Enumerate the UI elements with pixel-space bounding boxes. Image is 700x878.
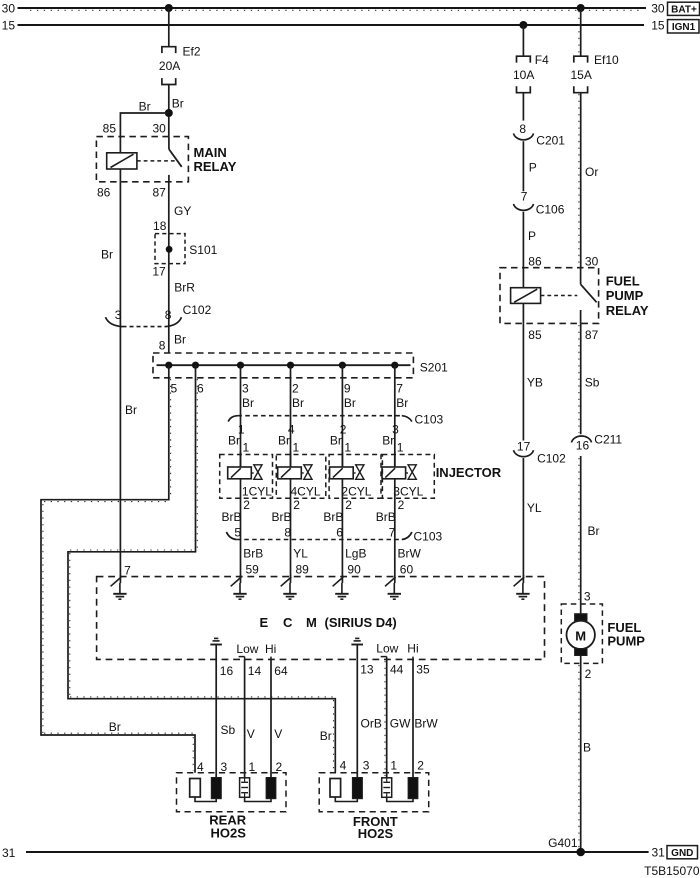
- svg-text:2CYL: 2CYL: [341, 484, 371, 498]
- node bus30/Ef10 branch: [577, 4, 585, 12]
- svg-text:YL: YL: [527, 501, 542, 515]
- injector 1CYL: [220, 452, 273, 541]
- splice block S201: [153, 353, 448, 378]
- connector C102 pin 17: [514, 440, 567, 466]
- svg-text:Br: Br: [320, 729, 332, 743]
- injector 2CYL: [329, 452, 381, 541]
- ECM pin hooks Low/Hi outputs: [239, 657, 413, 660]
- svg-text:C: C: [283, 615, 293, 630]
- svg-text:6: 6: [336, 526, 343, 540]
- svg-text:Br: Br: [292, 396, 304, 410]
- ground driver inside ECM pin 90: [333, 575, 349, 599]
- svg-text:C103: C103: [414, 529, 443, 543]
- svg-text:INJECTOR: INJECTOR: [436, 465, 502, 480]
- connector C103 (lower, pins 5 8 6 7): [226, 529, 442, 543]
- svg-text:4: 4: [197, 760, 204, 774]
- svg-text:Br: Br: [228, 434, 240, 448]
- wire B FUEL PUMP pin2 to G401: [579, 655, 592, 852]
- svg-text:1: 1: [390, 759, 397, 773]
- svg-text:FUEL: FUEL: [606, 273, 640, 288]
- relay FUEL PUMP RELAY: [500, 254, 649, 342]
- node bus30/Ef2 branch: [165, 4, 173, 12]
- svg-text:18: 18: [153, 219, 167, 233]
- wire YL C102-17 to ECM pin 6: [523, 458, 542, 576]
- svg-text:5: 5: [234, 526, 241, 540]
- bus 15 IGN1: [2, 18, 699, 33]
- svg-text:Br: Br: [109, 720, 121, 734]
- wire YB relay85 to C102 pin17: [523, 323, 543, 440]
- svg-text:17: 17: [152, 265, 166, 279]
- sensor symbol ECM rear O2 input: [210, 638, 222, 659]
- connector C103 (upper, pins 1 4 2 3): [228, 412, 443, 426]
- wire S201 pin5 to REAR HO2S pin4: [41, 365, 195, 773]
- sensor symbol ECM front O2 input: [351, 638, 363, 659]
- svg-text:30: 30: [651, 1, 665, 15]
- svg-text:M: M: [306, 615, 317, 630]
- svg-text:7: 7: [124, 563, 131, 577]
- wire BrR S101 to C102 pin8: [169, 264, 196, 353]
- svg-text:E: E: [260, 615, 269, 630]
- svg-text:87: 87: [153, 185, 167, 199]
- wire OrB ECM pin13 to FRONT HO2S pin3: [357, 659, 382, 777]
- svg-text:P: P: [528, 229, 536, 243]
- node S201 bus x=195.5: [192, 362, 199, 369]
- svg-text:BrB: BrB: [271, 510, 291, 524]
- svg-text:RELAY: RELAY: [194, 159, 237, 174]
- svg-text:Low: Low: [236, 642, 258, 656]
- wire LgB C103 to ECM pin 90: [342, 540, 366, 577]
- svg-text:Low: Low: [376, 642, 398, 656]
- ground G401: [548, 836, 585, 857]
- svg-text:15A: 15A: [571, 68, 592, 82]
- connector C106 pin 7: [514, 190, 565, 217]
- bus 31 GND: [2, 846, 700, 878]
- svg-text:3: 3: [242, 382, 249, 396]
- svg-text:85: 85: [103, 122, 117, 136]
- svg-text:1: 1: [249, 760, 256, 774]
- svg-text:M: M: [575, 628, 586, 643]
- svg-text:1: 1: [397, 440, 404, 454]
- svg-text:Br: Br: [330, 434, 342, 448]
- svg-text:Ef10: Ef10: [594, 53, 619, 67]
- oxygen sensor REAR HO2S: [177, 773, 287, 841]
- svg-text:MAIN: MAIN: [194, 145, 227, 160]
- ground driver inside ECM pin 59: [231, 575, 247, 599]
- wire YL injector 4CYL pin2 to C103 pin 8: [271, 510, 291, 540]
- svg-text:LgB: LgB: [345, 547, 366, 561]
- svg-text:64: 64: [274, 664, 288, 678]
- svg-text:T5B15070: T5B15070: [644, 864, 700, 878]
- svg-text:BrR: BrR: [174, 280, 195, 294]
- wire Or fuse Ef10 to FUEL PUMP RELAY pin 30: [579, 93, 598, 268]
- wire Br relay86 to C102 pin3 and ECM pin7: [101, 182, 137, 578]
- wire GY relay87 to S101: [169, 182, 192, 234]
- injector group box INJECTOR: [436, 465, 502, 480]
- svg-text:1: 1: [344, 440, 351, 454]
- wire Br C102-8 to S201: [159, 332, 186, 352]
- svg-text:1CYL: 1CYL: [242, 484, 272, 498]
- svg-text:87: 87: [585, 328, 599, 342]
- wire Sb relay87 to C211: [579, 323, 600, 434]
- wire Sb ECM pin16 to REAR HO2S pin3: [216, 659, 235, 777]
- svg-text:RELAY: RELAY: [606, 303, 649, 318]
- svg-text:85: 85: [528, 328, 542, 342]
- wire S201 pin6 to FRONT HO2S pin4: [68, 365, 335, 773]
- ground driver inside ECM pin 6: [514, 575, 530, 599]
- svg-text:Br: Br: [382, 434, 394, 448]
- svg-text:BrB: BrB: [221, 510, 241, 524]
- wire Br S201 pin 3 to injector 1CYL: [228, 365, 254, 467]
- wire LgB injector 2CYL pin2 to C103 pin 6: [323, 510, 343, 540]
- svg-text:Br: Br: [588, 524, 600, 538]
- wire V ECM pin64 to REAR HO2S pin2: [271, 659, 288, 777]
- wire bus15 to fuse F4: [522, 25, 524, 56]
- injector 4CYL: [276, 452, 326, 541]
- wire BrW C103 to ECM pin 60: [395, 540, 422, 577]
- svg-text:Hi: Hi: [265, 642, 276, 656]
- svg-text:C102: C102: [183, 303, 212, 317]
- wire Br C211 to FUEL PUMP pin 3: [579, 456, 600, 614]
- svg-text:Br: Br: [125, 403, 137, 417]
- svg-text:C106: C106: [536, 203, 565, 217]
- svg-text:F4: F4: [535, 53, 549, 67]
- svg-text:Br: Br: [242, 396, 254, 410]
- fuse Ef2 20A: [159, 44, 201, 84]
- svg-text:V: V: [247, 727, 255, 741]
- svg-text:C211: C211: [594, 432, 622, 446]
- svg-text:6: 6: [197, 382, 204, 396]
- svg-text:31: 31: [2, 846, 16, 860]
- node S201 bus x=290.5: [287, 362, 294, 369]
- svg-text:Br: Br: [172, 97, 184, 111]
- svg-text:BrW: BrW: [398, 547, 422, 561]
- svg-text:86: 86: [97, 185, 111, 199]
- svg-text:3: 3: [221, 760, 228, 774]
- wire Br fuse Ef2 to MAIN RELAY pin 30: [169, 85, 184, 137]
- svg-text:2: 2: [292, 382, 299, 396]
- svg-text:44: 44: [390, 663, 404, 677]
- node S201 bus x=342.4: [339, 362, 346, 369]
- svg-text:YL: YL: [293, 547, 308, 561]
- wire BrW ECM pin35 to FRONT HO2S pin2: [413, 659, 438, 777]
- svg-text:GND: GND: [671, 848, 693, 859]
- svg-text:C102: C102: [537, 451, 566, 465]
- ECM Low/Hi labels front: [376, 642, 418, 656]
- svg-text:Sb: Sb: [221, 723, 236, 737]
- svg-text:3: 3: [584, 590, 591, 604]
- svg-text:BAT+: BAT+: [671, 5, 697, 16]
- svg-text:2: 2: [398, 498, 405, 512]
- svg-text:C103: C103: [415, 412, 444, 426]
- relay MAIN RELAY: [96, 122, 236, 200]
- svg-text:17: 17: [517, 440, 531, 454]
- ground driver inside ECM pin 60: [385, 575, 401, 599]
- svg-text:15: 15: [651, 18, 665, 32]
- svg-text:2: 2: [243, 498, 250, 512]
- fuse F4 10A: [513, 53, 549, 93]
- oxygen sensor FRONT HO2S: [319, 773, 429, 842]
- svg-text:2: 2: [345, 498, 352, 512]
- svg-text:3: 3: [363, 759, 370, 773]
- wire Br S201 pin 7 to injector 3CYL: [382, 365, 408, 467]
- svg-text:Br: Br: [174, 332, 186, 346]
- svg-text:HO2S: HO2S: [210, 826, 246, 841]
- svg-text:30: 30: [2, 1, 16, 15]
- svg-text:2: 2: [585, 667, 592, 681]
- svg-text:3CYL: 3CYL: [393, 484, 423, 498]
- svg-text:5: 5: [171, 382, 178, 396]
- wire BrB injector 1CYL pin2 to C103 pin 5: [221, 510, 241, 540]
- svg-text:3: 3: [115, 308, 122, 322]
- svg-text:IGN1: IGN1: [672, 22, 696, 33]
- wire Br S201 pin 2 to injector 4CYL: [278, 365, 304, 467]
- wire P C106 to FUEL PUMP RELAY pin 86: [523, 212, 536, 268]
- svg-text:2: 2: [293, 498, 300, 512]
- svg-text:8: 8: [519, 122, 526, 136]
- svg-text:BrB: BrB: [323, 510, 343, 524]
- node bus15/F4 branch: [519, 21, 527, 29]
- svg-text:16: 16: [220, 664, 234, 678]
- svg-text:4CYL: 4CYL: [291, 484, 321, 498]
- svg-text:1: 1: [243, 440, 250, 454]
- svg-text:YB: YB: [527, 376, 543, 390]
- svg-text:BrW: BrW: [414, 716, 438, 730]
- svg-text:Br: Br: [396, 396, 408, 410]
- svg-text:OrB: OrB: [361, 716, 382, 730]
- svg-text:13: 13: [360, 663, 374, 677]
- svg-text:PUMP: PUMP: [607, 633, 645, 648]
- svg-text:Or: Or: [585, 165, 598, 179]
- node S201 bus x=394.8: [391, 362, 398, 369]
- splice S101: [152, 219, 217, 278]
- svg-text:S201: S201: [420, 361, 448, 375]
- svg-text:BrB: BrB: [376, 510, 396, 524]
- svg-text:90: 90: [347, 562, 361, 576]
- svg-text:15: 15: [2, 18, 16, 32]
- bus 30 BAT+: [2, 1, 700, 15]
- wire Br S201 pin 9 to injector 2CYL: [330, 365, 356, 467]
- wire YL C103 to ECM pin 89: [291, 540, 310, 577]
- ECM Low/Hi labels rear: [236, 642, 276, 656]
- wire GW ECM pin44 to FRONT HO2S pin1: [385, 659, 411, 777]
- svg-text:86: 86: [528, 254, 542, 268]
- svg-text:30: 30: [153, 122, 167, 136]
- svg-text:8: 8: [284, 526, 291, 540]
- svg-text:1: 1: [293, 440, 300, 454]
- svg-text:GY: GY: [174, 204, 191, 218]
- svg-text:Br: Br: [101, 247, 113, 261]
- connector C201 pin 8: [514, 122, 566, 147]
- ground driver inside ECM pin 89: [281, 575, 297, 599]
- svg-text:P: P: [529, 160, 537, 174]
- node S201 bus x=240.5: [237, 362, 244, 369]
- node S201 bus x=168.8: [165, 362, 172, 369]
- svg-text:4: 4: [340, 759, 347, 773]
- svg-text:V: V: [274, 727, 282, 741]
- svg-text:(SIRIUS D4): (SIRIUS D4): [325, 615, 397, 630]
- node Br junction: [165, 109, 173, 117]
- svg-text:89: 89: [296, 562, 310, 576]
- svg-text:7: 7: [389, 526, 396, 540]
- motor FUEL PUMP: [561, 604, 645, 663]
- svg-text:Br: Br: [278, 434, 290, 448]
- wire BrW injector 3CYL pin2 to C103 pin 7: [376, 510, 396, 540]
- svg-text:C201: C201: [536, 134, 565, 148]
- svg-text:PUMP: PUMP: [606, 288, 644, 303]
- svg-text:16: 16: [576, 438, 590, 452]
- svg-text:8: 8: [165, 308, 172, 322]
- svg-text:Br: Br: [139, 100, 151, 114]
- injector 3CYL: [382, 452, 434, 541]
- svg-text:2: 2: [276, 760, 283, 774]
- svg-text:10A: 10A: [513, 68, 534, 82]
- ground driver inside ECM pin 7: [111, 575, 127, 599]
- svg-text:Ef2: Ef2: [183, 44, 201, 58]
- svg-text:Sb: Sb: [585, 376, 600, 390]
- ECM (SIRIUS D4) box: [97, 577, 545, 660]
- svg-text:20A: 20A: [159, 59, 180, 73]
- wire fuse F4 to C201: [522, 93, 524, 121]
- wire Br branch to MAIN RELAY pin 85: [120, 100, 168, 137]
- svg-text:59: 59: [246, 562, 260, 576]
- svg-text:B: B: [583, 741, 591, 755]
- svg-text:30: 30: [585, 254, 599, 268]
- svg-text:Br: Br: [344, 396, 356, 410]
- svg-text:7: 7: [521, 190, 528, 204]
- svg-text:BrB: BrB: [243, 547, 263, 561]
- svg-text:GW: GW: [390, 716, 411, 730]
- fuse Ef10 15A: [571, 53, 620, 93]
- svg-text:60: 60: [400, 562, 414, 576]
- wire V ECM pin14 to REAR HO2S pin1: [245, 659, 262, 777]
- svg-text:S101: S101: [189, 243, 217, 257]
- svg-text:2: 2: [417, 759, 424, 773]
- connector C102 pins 3,8: [106, 303, 212, 327]
- wire P C201 to C106: [523, 141, 536, 191]
- wire bus30 to fuse Ef2: [168, 8, 170, 47]
- svg-text:8: 8: [159, 338, 166, 352]
- wire bus30 to fuse Ef10: [580, 8, 582, 56]
- wire BrB C103 to ECM pin 59: [241, 540, 264, 577]
- connector C211 pin 16: [572, 432, 623, 452]
- svg-text:35: 35: [416, 663, 430, 677]
- svg-text:14: 14: [248, 664, 262, 678]
- svg-text:HO2S: HO2S: [358, 826, 394, 841]
- svg-text:G401: G401: [548, 836, 578, 850]
- svg-text:7: 7: [396, 382, 403, 396]
- svg-text:31: 31: [652, 846, 666, 860]
- svg-text:9: 9: [344, 382, 351, 396]
- svg-text:Hi: Hi: [407, 642, 418, 656]
